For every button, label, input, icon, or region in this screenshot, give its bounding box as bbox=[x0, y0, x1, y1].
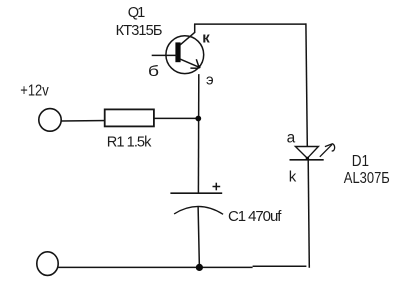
wire bottom rail left bbox=[58, 266, 252, 268]
svg-text:C1 470uf: C1 470uf bbox=[228, 208, 282, 225]
LED D1 bbox=[290, 144, 335, 160]
bottom terminal bbox=[37, 252, 58, 276]
wire emitter vertical bbox=[197, 74, 199, 193]
svg-text:+12v: +12v bbox=[20, 83, 49, 100]
svg-text:R1 1.5k: R1 1.5k bbox=[107, 135, 152, 151]
wire top rail bbox=[194, 23, 306, 25]
svg-text:k: k bbox=[289, 169, 297, 186]
wire right rail lower bbox=[308, 160, 309, 268]
svg-text:Q1: Q1 bbox=[128, 5, 146, 21]
svg-text:к: к bbox=[202, 29, 210, 46]
svg-text:D1: D1 bbox=[352, 153, 369, 170]
wire C1 to bottom rail bbox=[198, 206, 199, 268]
svg-text:a: a bbox=[287, 129, 296, 146]
wire bottom rail right bbox=[253, 265, 307, 267]
junction node E bbox=[195, 116, 201, 122]
svg-text:КТ315Б: КТ315Б bbox=[116, 23, 163, 39]
svg-text:AL307Б: AL307Б bbox=[344, 170, 390, 187]
svg-text:б: б bbox=[148, 64, 159, 80]
svg-text:э: э bbox=[206, 72, 214, 89]
junction node bottom bbox=[196, 264, 203, 271]
wire terminal to R1 bbox=[61, 120, 109, 123]
capacitor C1 bbox=[170, 183, 223, 215]
wire collector to top rail bbox=[194, 24, 196, 33]
wire R1 to node E bbox=[154, 117, 199, 119]
wire right rail upper bbox=[306, 23, 307, 146]
transistor Q1 bbox=[166, 32, 204, 73]
resistor R1 bbox=[105, 109, 154, 126]
terminal +12v bbox=[39, 109, 61, 132]
wire base lead bbox=[152, 54, 177, 56]
